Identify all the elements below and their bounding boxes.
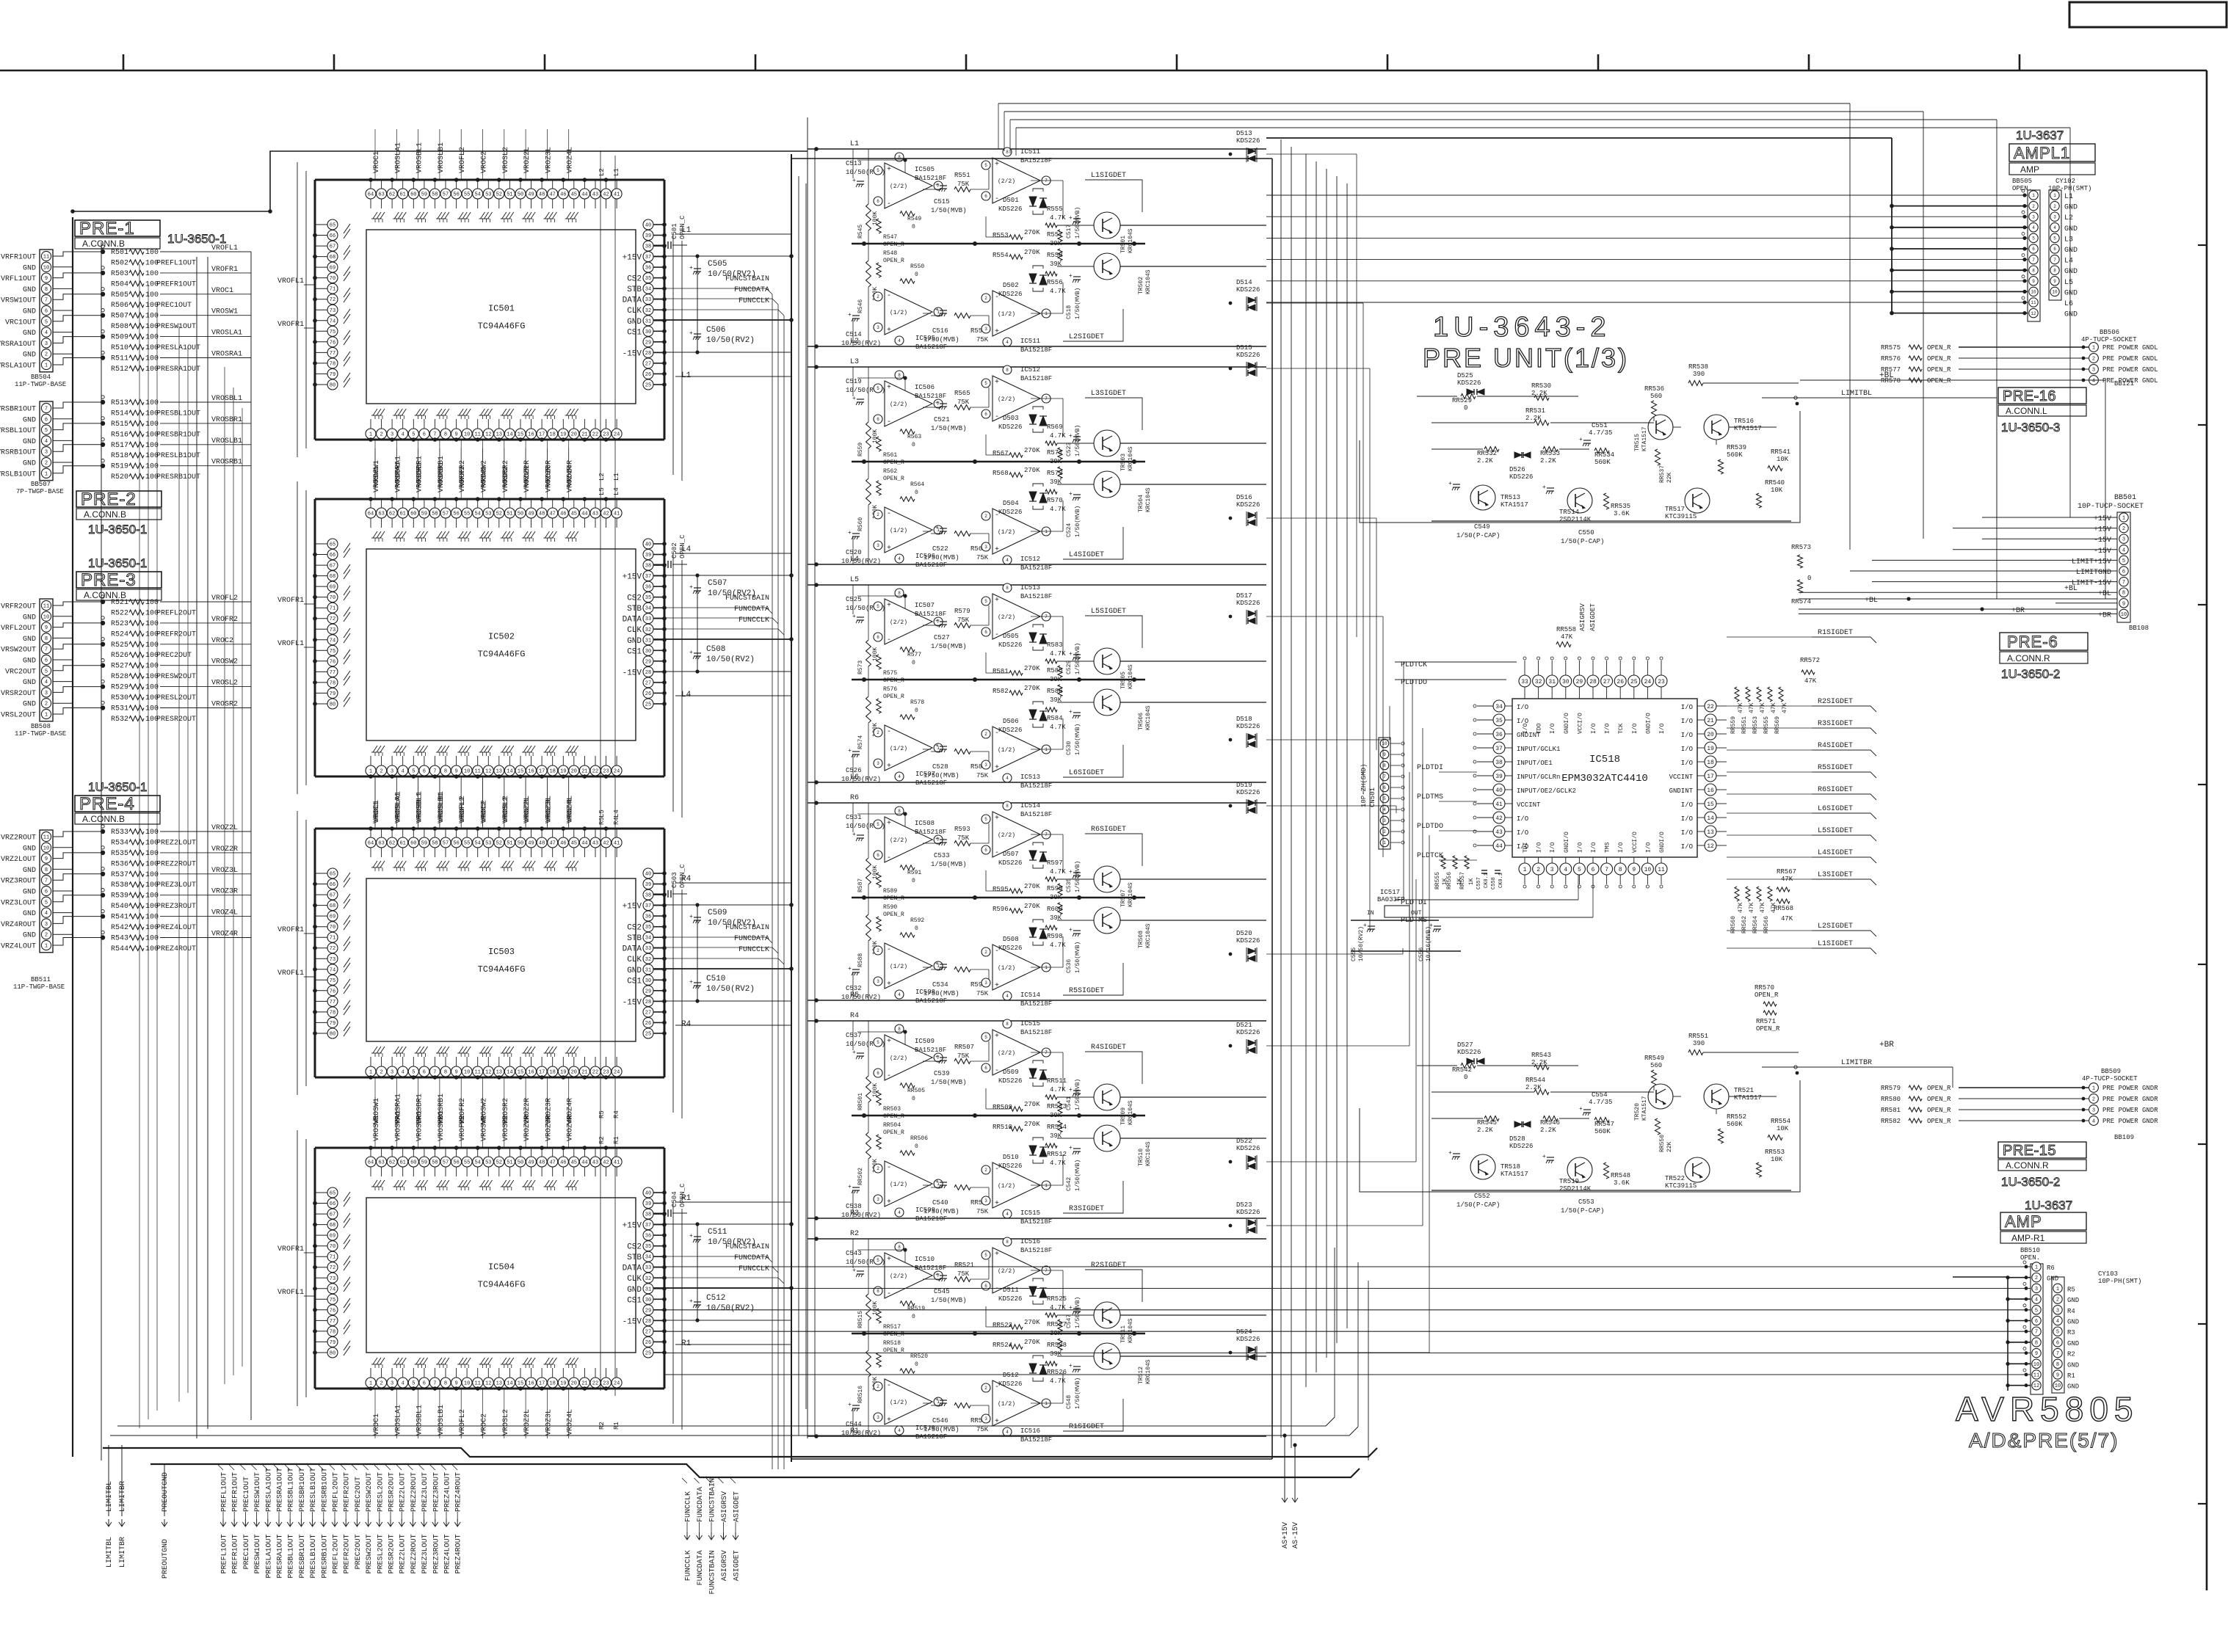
svg-text:R4: R4 <box>681 875 692 884</box>
svg-text:1/50(MVB): 1/50(MVB) <box>931 207 967 214</box>
svg-text:VROSR2: VROSR2 <box>502 1115 510 1141</box>
wire BB506 pin 2 <box>1959 357 2089 359</box>
svg-text:19: 19 <box>560 1070 566 1076</box>
svg-text:CS2: CS2 <box>627 275 642 284</box>
IC IC503 left slash symbols <box>344 873 350 882</box>
svg-text:PREFL1OUT: PREFL1OUT <box>156 259 196 267</box>
svg-text:14: 14 <box>507 1381 512 1387</box>
svg-text:OPEN_R: OPEN_R <box>883 476 904 482</box>
wire limiter mesh <box>1417 1065 1457 1066</box>
svg-text:R504: R504 <box>111 280 128 288</box>
capacitor C539 1/50(MVB) + resistor RR507 75K <box>940 1057 947 1058</box>
border right tick 3 <box>2198 604 2207 605</box>
svg-text:270K: 270K <box>1024 1101 1040 1108</box>
svg-text:A.CONN.B: A.CONN.B <box>82 814 125 824</box>
svg-text:1/50(MVB): 1/50(MVB) <box>924 990 959 997</box>
svg-text:L6SIGDET: L6SIGDET <box>1818 805 1853 813</box>
svg-text:R503: R503 <box>111 270 128 278</box>
svg-text:3: 3 <box>877 979 879 984</box>
IC518 left pins 34-44 <box>1493 700 1505 712</box>
resistor RR515 100K <box>866 1294 871 1320</box>
svg-text:1: 1 <box>369 432 372 438</box>
svg-text:-: - <box>887 1164 891 1172</box>
svg-text:49: 49 <box>528 1160 534 1166</box>
svg-text:1: 1 <box>369 769 372 775</box>
svg-text:11: 11 <box>474 1070 480 1076</box>
svg-text:2: 2 <box>2092 1097 2095 1103</box>
svg-text:3: 3 <box>984 763 987 768</box>
svg-text:R1SIGDET: R1SIGDET <box>1069 1423 1104 1431</box>
svg-text:KTA1517: KTA1517 <box>1734 1094 1762 1102</box>
svg-text:47: 47 <box>549 841 555 847</box>
svg-text:+: + <box>935 307 939 313</box>
svg-text:VROSW1: VROSW1 <box>373 466 381 492</box>
svg-text:RR573: RR573 <box>1791 544 1811 551</box>
IC IC504 bottom pins 1-24 <box>366 1378 376 1388</box>
svg-text:74: 74 <box>330 967 335 973</box>
svg-text:KTC3911S: KTC3911S <box>1665 1182 1697 1190</box>
svg-text:40: 40 <box>645 1191 651 1197</box>
svg-text:VROSLB1: VROSLB1 <box>211 437 242 445</box>
IC518 top pins 33-23 <box>1519 675 1531 687</box>
svg-text:PRE UNIT(1/3): PRE UNIT(1/3) <box>1423 343 1629 373</box>
svg-text:KDS226: KDS226 <box>1236 1145 1260 1152</box>
svg-text:PRE POWER GNDL: PRE POWER GNDL <box>2102 344 2158 352</box>
svg-text:R596: R596 <box>993 906 1009 913</box>
svg-text:DATA: DATA <box>623 616 642 625</box>
svg-text:R527: R527 <box>111 663 128 671</box>
svg-text:L2SIGDET: L2SIGDET <box>1069 333 1104 341</box>
svg-text:C508: C508 <box>706 645 725 654</box>
label PRE-6 box <box>2000 633 2088 650</box>
svg-text:62: 62 <box>389 192 395 198</box>
svg-text:100: 100 <box>145 620 159 628</box>
svg-text:38: 38 <box>645 893 651 899</box>
svg-text:TR505: TR505 <box>1120 672 1127 689</box>
svg-text:4: 4 <box>898 556 901 561</box>
svg-text:43: 43 <box>592 512 598 517</box>
svg-text:OPEN_R: OPEN_R <box>1755 991 1779 999</box>
wire GND feed vertical (AMPL1) <box>1891 138 1893 313</box>
svg-text:VRZ4ROUT: VRZ4ROUT <box>1 921 36 929</box>
svg-text:10K: 10K <box>1771 1156 1783 1163</box>
svg-text:5: 5 <box>877 604 879 609</box>
svg-text:PREFR1OUT: PREFR1OUT <box>156 280 196 288</box>
wire net VROSL2 <box>160 686 208 688</box>
svg-text:C550: C550 <box>1578 529 1594 536</box>
wire stage 1-2 links <box>923 1060 931 1062</box>
wire limiter R enclosure <box>1360 1080 1800 1192</box>
node PRESR2OUT (bottom) <box>385 1465 391 1470</box>
wire AMPL1 L4 pin 7 <box>1266 259 2028 261</box>
svg-text:21: 21 <box>1707 718 1714 724</box>
svg-text:I/O: I/O <box>1517 829 1528 837</box>
svg-text:61: 61 <box>399 192 405 198</box>
svg-text:ASIGDET: ASIGDET <box>1589 603 1597 631</box>
svg-text:6: 6 <box>2053 247 2056 252</box>
svg-text:-: - <box>995 849 999 857</box>
svg-text:5: 5 <box>877 1258 879 1263</box>
svg-text:42: 42 <box>603 192 609 198</box>
svg-text:PRESW1OUT: PRESW1OUT <box>156 323 196 331</box>
svg-text:PRE POWER GNDR: PRE POWER GNDR <box>2102 1118 2158 1125</box>
svg-text:41: 41 <box>614 192 620 198</box>
svg-text:270K: 270K <box>1024 1319 1040 1326</box>
svg-text:67: 67 <box>330 564 335 570</box>
svg-text:26: 26 <box>1616 679 1624 685</box>
svg-text:VROFL1: VROFL1 <box>211 244 238 252</box>
capacitor C520 10/50(RV2) <box>852 533 860 534</box>
svg-text:VRFR2OUT: VRFR2OUT <box>1 603 36 611</box>
svg-text:70: 70 <box>330 1244 335 1250</box>
svg-text:+: + <box>1069 651 1073 658</box>
svg-text:+: + <box>1069 927 1073 934</box>
svg-text:80: 80 <box>330 1351 335 1357</box>
transistor TR505 KRC104S <box>1094 648 1120 674</box>
wire IC block wrap verticals <box>672 235 674 475</box>
svg-text:IC504: IC504 <box>488 1262 515 1273</box>
svg-text:BB501: BB501 <box>2114 494 2136 502</box>
svg-text:4.7K: 4.7K <box>1050 942 1066 949</box>
svg-text:RR523: RR523 <box>993 1322 1012 1329</box>
svg-text:9: 9 <box>1383 752 1386 757</box>
svg-text:CN501: CN501 <box>1369 787 1376 807</box>
svg-text:TR513: TR513 <box>1501 494 1520 501</box>
svg-text:R593: R593 <box>954 826 970 833</box>
svg-text:47K: 47K <box>1738 902 1744 913</box>
IC IC504 top slash symbols <box>373 1180 377 1187</box>
svg-text:15: 15 <box>518 769 523 775</box>
svg-text:100K: 100K <box>872 1301 879 1315</box>
svg-text:(1/2): (1/2) <box>998 965 1015 972</box>
svg-text:100: 100 <box>145 442 159 450</box>
svg-text:L5: L5 <box>598 809 606 818</box>
capacitor C545 1/50(MVB) + resistor RR521 75K <box>940 1275 947 1276</box>
svg-text:RR515: RR515 <box>857 1311 864 1328</box>
IC IC503 bottom slash symbols <box>373 1047 377 1053</box>
wire mid rail <box>852 1115 1145 1116</box>
svg-text:33: 33 <box>645 946 651 952</box>
svg-text:TR511: TR511 <box>1120 1325 1127 1343</box>
svg-text:+: + <box>887 763 891 771</box>
svg-text:R514: R514 <box>111 410 128 418</box>
svg-text:16: 16 <box>528 769 534 775</box>
wire net VROFL2 <box>160 601 208 603</box>
svg-text:31: 31 <box>645 1287 651 1292</box>
svg-text:R591: R591 <box>907 870 921 876</box>
svg-text:27: 27 <box>1603 679 1611 685</box>
svg-text:+: + <box>848 748 852 754</box>
svg-text:R5: R5 <box>598 1110 606 1118</box>
svg-text:64: 64 <box>368 1160 374 1166</box>
svg-text:VROZ3R: VROZ3R <box>545 466 553 492</box>
svg-text:I/O: I/O <box>1517 815 1528 823</box>
svg-text:R4SIGDET: R4SIGDET <box>1091 1044 1126 1052</box>
label AMP box <box>2000 1212 2086 1230</box>
svg-text:15: 15 <box>1707 801 1714 808</box>
svg-text:50: 50 <box>518 1160 523 1166</box>
svg-text:100: 100 <box>145 705 159 713</box>
svg-text:2: 2 <box>877 1166 879 1171</box>
svg-text:GND: GND <box>23 416 36 424</box>
op-amp IC506 (1/2) <box>885 507 932 553</box>
svg-text:9: 9 <box>1632 867 1636 873</box>
svg-text:36: 36 <box>645 914 651 920</box>
wire stage 1-2 links <box>923 625 931 626</box>
svg-text:GND: GND <box>23 614 36 622</box>
svg-text:VRSW1OUT: VRSW1OUT <box>1 297 36 305</box>
svg-text:L2: L2 <box>598 473 606 481</box>
IC U518 EPM3032ATC4410 body <box>1512 699 1697 857</box>
svg-text:VROC1: VROC1 <box>373 151 381 173</box>
svg-text:KDS226: KDS226 <box>1236 723 1260 730</box>
capacitor C557 CK0.1 <box>1481 870 1487 871</box>
wire IC502 +15V/-15V feed <box>653 575 791 576</box>
svg-text:OPEN_R: OPEN_R <box>1756 1025 1780 1033</box>
svg-text:IC507: IC507 <box>915 602 935 609</box>
wire IC502 GND line <box>653 638 791 640</box>
svg-text:5: 5 <box>984 1253 987 1258</box>
svg-text:L5: L5 <box>2064 279 2073 287</box>
svg-text:R6SIGDET: R6SIGDET <box>1091 826 1126 834</box>
svg-text:C531: C531 <box>846 814 862 821</box>
wire net VROZ2L <box>160 831 208 832</box>
svg-text:TR522: TR522 <box>1665 1175 1685 1182</box>
IC IC503 top slash symbols <box>373 861 377 867</box>
svg-text:50: 50 <box>518 512 523 517</box>
svg-text:75K: 75K <box>957 181 970 188</box>
svg-text:4: 4 <box>898 1428 901 1433</box>
svg-text:C549: C549 <box>1474 523 1490 531</box>
resistor RR517 OPEN_R <box>877 1309 881 1323</box>
svg-text:12: 12 <box>485 1381 491 1387</box>
svg-text:18: 18 <box>549 1070 555 1076</box>
node PREZ2LOUT (bottom) <box>396 1465 402 1470</box>
svg-text:+: + <box>1069 1087 1073 1094</box>
svg-text:270K: 270K <box>1024 665 1040 672</box>
svg-text:1: 1 <box>2092 346 2095 352</box>
svg-text:R523: R523 <box>111 620 128 628</box>
svg-text:IC502: IC502 <box>488 632 515 642</box>
svg-text:57: 57 <box>443 1160 449 1166</box>
svg-text:+: + <box>935 1397 939 1403</box>
IC IC503 bottom pins 1-24 <box>366 1066 376 1077</box>
svg-text:GND: GND <box>23 438 36 446</box>
svg-text:28: 28 <box>645 1319 651 1325</box>
op-amp IC513 (1/2) <box>993 727 1040 772</box>
svg-text:10/50(RV2): 10/50(RV2) <box>706 1304 755 1313</box>
svg-text:270K: 270K <box>1024 447 1040 454</box>
capacitor C526 10/50(RV2) <box>852 751 860 752</box>
svg-text:75K: 75K <box>976 1426 989 1433</box>
svg-text:C512: C512 <box>706 1294 725 1303</box>
svg-text:22: 22 <box>592 1381 598 1387</box>
svg-text:70: 70 <box>330 276 335 282</box>
capacitor C516 1/50(MVB) + resistor R552 75K <box>940 310 947 311</box>
svg-text:C554: C554 <box>1592 1091 1608 1099</box>
svg-text:RR576: RR576 <box>1881 355 1901 363</box>
wire left vertical bus C <box>196 257 197 1438</box>
svg-text:6: 6 <box>877 1071 879 1076</box>
svg-text:26: 26 <box>645 1340 651 1346</box>
svg-text:6: 6 <box>1383 785 1386 790</box>
transistor TR513 KTA1517 <box>1470 485 1495 510</box>
svg-text:33: 33 <box>645 616 651 622</box>
svg-text:OPEN_R: OPEN_R <box>1927 1096 1951 1103</box>
svg-text:R534: R534 <box>111 840 128 848</box>
wire AMPL1 GND pin 10 <box>1892 291 2028 292</box>
svg-text:L2: L2 <box>2064 214 2073 222</box>
wire IC501 +15V/-15V feed <box>653 255 791 257</box>
svg-text:D506: D506 <box>1003 718 1019 725</box>
svg-text:VROSW2: VROSW2 <box>481 1115 489 1141</box>
svg-text:10: 10 <box>1644 867 1652 873</box>
svg-text:R584: R584 <box>1047 715 1063 722</box>
svg-text:2: 2 <box>984 1168 987 1173</box>
svg-text:L3SIGDET: L3SIGDET <box>1818 871 1853 879</box>
svg-text:R529: R529 <box>111 684 128 692</box>
svg-text:+: + <box>852 396 856 402</box>
resistor RR557 1K <box>1465 856 1469 869</box>
svg-text:-: - <box>995 1067 999 1075</box>
svg-text:C558: C558 <box>1491 877 1497 889</box>
svg-text:4: 4 <box>2053 225 2056 230</box>
svg-text:8: 8 <box>898 591 901 596</box>
svg-text:3: 3 <box>391 432 393 438</box>
svg-text:72: 72 <box>330 1265 335 1271</box>
svg-text:71: 71 <box>330 287 335 293</box>
wire CY103 R3 pin7 <box>664 1331 2031 1332</box>
svg-text:5: 5 <box>2032 236 2035 241</box>
svg-text:3: 3 <box>45 341 48 347</box>
svg-text:RR537: RR537 <box>1659 465 1666 483</box>
svg-text:KRC104S: KRC104S <box>1128 1100 1134 1125</box>
svg-text:I/O: I/O <box>1681 829 1693 837</box>
svg-text:34: 34 <box>1495 704 1503 710</box>
resistor RR556 1K <box>1453 856 1457 869</box>
transistor TR514 2SD2114K <box>1567 488 1592 513</box>
svg-text:35: 35 <box>645 276 651 282</box>
svg-text:20: 20 <box>571 769 577 775</box>
svg-text:KDS226: KDS226 <box>998 727 1022 734</box>
svg-text:GND: GND <box>627 318 642 327</box>
svg-text:LIMIT-15V: LIMIT-15V <box>2072 580 2111 588</box>
svg-text:R519: R519 <box>111 463 128 471</box>
wire net VROZ3L <box>160 873 208 875</box>
svg-text:36: 36 <box>645 266 651 272</box>
wire net VROC2 <box>160 644 208 645</box>
svg-text:L6: L6 <box>850 774 859 782</box>
svg-text:23: 23 <box>603 1381 609 1387</box>
svg-text:CLK: CLK <box>627 956 642 964</box>
svg-text:22K: 22K <box>1666 1141 1673 1152</box>
svg-text:RR517: RR517 <box>883 1324 901 1331</box>
svg-text:6: 6 <box>877 199 879 204</box>
svg-text:48: 48 <box>539 841 545 847</box>
svg-text:LIMITBL: LIMITBL <box>1841 390 1872 398</box>
svg-text:R595: R595 <box>993 886 1009 893</box>
border tick 10 <box>2019 54 2021 70</box>
svg-text:2: 2 <box>877 1384 879 1389</box>
resistor RR502 100K <box>866 1132 871 1159</box>
wire bottom bus 3 <box>103 1448 1377 1457</box>
svg-text:I/O: I/O <box>1550 723 1556 734</box>
svg-text:3: 3 <box>984 980 987 986</box>
svg-text:(2/2): (2/2) <box>890 183 907 190</box>
svg-text:KTA1517: KTA1517 <box>1501 501 1528 509</box>
svg-text:9: 9 <box>45 856 48 862</box>
svg-text:C511: C511 <box>708 1228 727 1237</box>
svg-text:GND: GND <box>23 867 36 875</box>
svg-text:KTA1517: KTA1517 <box>1501 1171 1528 1178</box>
svg-text:34: 34 <box>645 936 651 942</box>
svg-text:11P-TWGP-BASE: 11P-TWGP-BASE <box>15 381 66 388</box>
svg-text:FUNCDATA: FUNCDATA <box>734 935 769 943</box>
svg-text:25: 25 <box>645 1351 651 1357</box>
svg-text:PLDTDI: PLDTDI <box>1417 764 1443 772</box>
svg-text:47K: 47K <box>1749 702 1755 713</box>
svg-text:D518: D518 <box>1236 716 1252 723</box>
resistor R575 OPEN_R <box>877 655 881 669</box>
svg-text:43: 43 <box>592 1160 598 1166</box>
svg-text:+: + <box>689 914 693 920</box>
svg-text:27: 27 <box>645 680 651 686</box>
svg-text:1/50(P-CAP): 1/50(P-CAP) <box>1561 538 1604 545</box>
label PRE-4 <box>75 796 160 812</box>
svg-text:1/50(MVB): 1/50(MVB) <box>931 643 967 650</box>
svg-text:4P-TUCP-SOCKET: 4P-TUCP-SOCKET <box>2082 1075 2138 1082</box>
svg-text:58: 58 <box>432 512 438 517</box>
resistor RR571 OPEN_R <box>1763 1011 1777 1015</box>
svg-text:R5SIGDET: R5SIGDET <box>1818 764 1853 772</box>
svg-text:47: 47 <box>549 512 555 517</box>
svg-text:11P-TWGP-BASE: 11P-TWGP-BASE <box>15 730 66 738</box>
svg-text:+15V: +15V <box>623 1222 642 1231</box>
svg-text:IC506: IC506 <box>915 384 935 391</box>
svg-text:41: 41 <box>614 1160 620 1166</box>
svg-text:75K: 75K <box>957 1052 970 1060</box>
svg-text:100: 100 <box>145 684 159 692</box>
svg-text:TR502: TR502 <box>1138 277 1144 294</box>
wire CY103 GND pin10 <box>2008 1363 2031 1364</box>
svg-text:4: 4 <box>402 769 404 775</box>
svg-text:OPEN_R: OPEN_R <box>883 895 904 902</box>
svg-text:R567: R567 <box>993 450 1009 457</box>
svg-text:4: 4 <box>898 774 901 779</box>
resistor R574 100K <box>866 696 871 723</box>
svg-text:FUNCSTBAIN: FUNCSTBAIN <box>725 594 769 603</box>
svg-text:12: 12 <box>485 1070 491 1076</box>
svg-text:VRSLA1OUT: VRSLA1OUT <box>0 363 36 371</box>
svg-text:VROFR2: VROFR2 <box>459 1115 467 1141</box>
border top rule <box>0 70 2207 72</box>
svg-text:R536: R536 <box>111 860 128 868</box>
svg-text:74: 74 <box>330 1287 335 1292</box>
IC IC504 TC94A46FG outline frame <box>315 1147 664 1149</box>
svg-text:BB108: BB108 <box>2129 625 2149 632</box>
svg-text:1/50(MVB): 1/50(MVB) <box>931 1079 967 1086</box>
svg-text:PLDTCK: PLDTCK <box>1401 661 1427 669</box>
svg-text:5: 5 <box>45 319 48 325</box>
svg-text:VROSBL1: VROSBL1 <box>416 142 424 173</box>
svg-text:37: 37 <box>645 255 651 261</box>
svg-text:41: 41 <box>614 841 620 847</box>
wire mid rail <box>852 897 1145 898</box>
svg-text:1: 1 <box>1045 1401 1048 1406</box>
svg-text:+15V: +15V <box>623 254 642 263</box>
svg-text:RR519: RR519 <box>907 1306 925 1312</box>
svg-text:51: 51 <box>507 841 512 847</box>
